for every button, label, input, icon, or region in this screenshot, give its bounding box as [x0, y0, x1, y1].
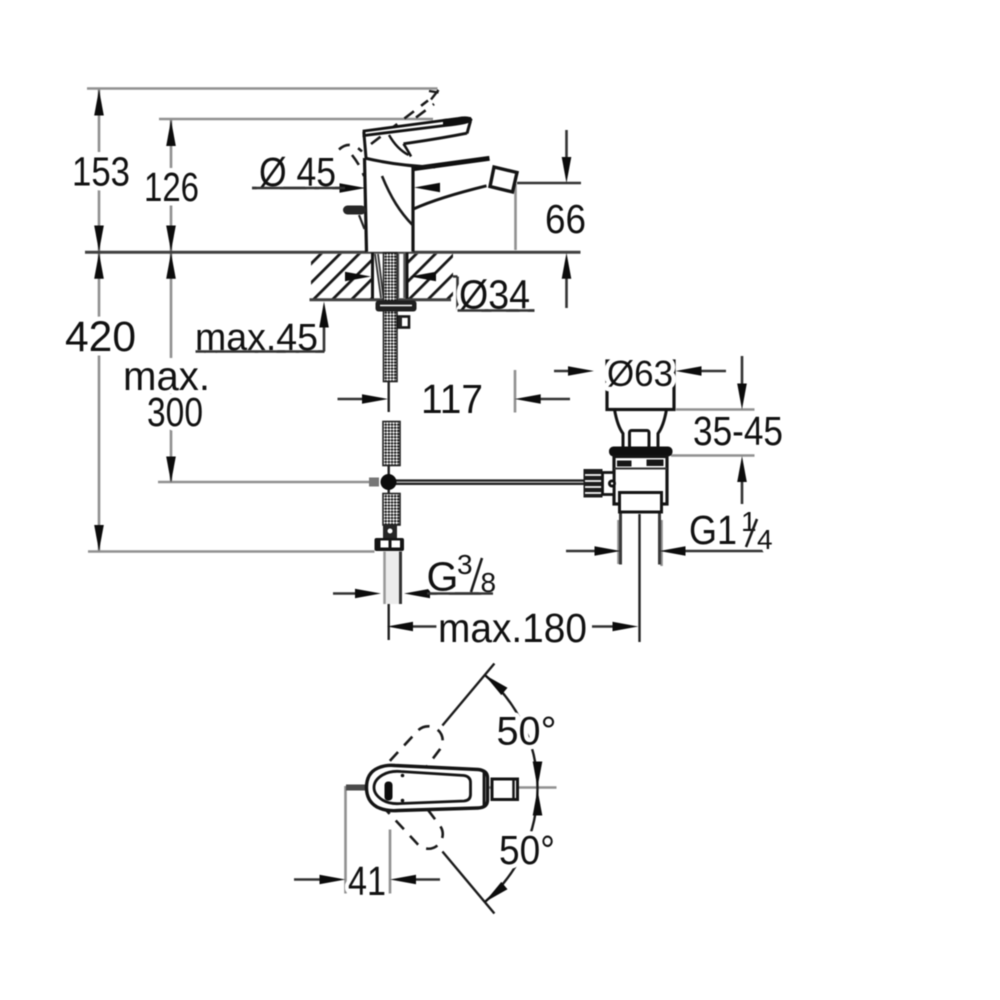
svg-text:3: 3 — [457, 549, 473, 580]
svg-text:300: 300 — [147, 389, 203, 435]
svg-text:4: 4 — [757, 524, 773, 555]
svg-text:35-45: 35-45 — [693, 408, 783, 454]
svg-text:max.180: max.180 — [438, 605, 587, 651]
svg-text:66: 66 — [545, 196, 586, 242]
svg-text:G1: G1 — [689, 507, 737, 553]
svg-text:50°: 50° — [497, 710, 557, 754]
svg-text:117: 117 — [421, 376, 483, 422]
svg-text:126: 126 — [144, 164, 199, 210]
svg-text:1: 1 — [741, 506, 757, 537]
svg-text:41: 41 — [348, 858, 386, 904]
svg-text:50°: 50° — [499, 827, 555, 873]
svg-text:Ø63: Ø63 — [607, 353, 673, 394]
svg-text:153: 153 — [72, 149, 130, 195]
